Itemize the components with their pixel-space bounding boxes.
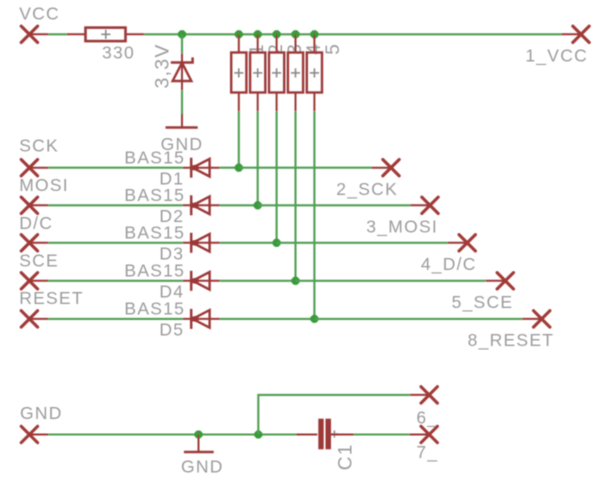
svg-text:BAS15: BAS15 [124, 223, 185, 243]
svg-text:BAS15: BAS15 [124, 147, 185, 167]
wire riser to net 6 [258, 395, 410, 435]
capacitor C1 origin cross [331, 430, 338, 437]
wire RESET to D5 [48, 318, 182, 320]
diode D1 lead line [183, 167, 220, 169]
node row5 junction [310, 315, 318, 323]
wire R1 to row 1 [238, 111, 240, 168]
node rail junction R4 [291, 30, 299, 38]
resistor R3 origin cross [272, 68, 281, 77]
pin connector X MOSI (left) [21, 197, 37, 213]
resistor R2 top pin [257, 34, 259, 52]
svg-text:3,3V: 3,3V [152, 43, 174, 88]
zener diode 3,3V triangle [173, 63, 192, 81]
wire R3 to row 3 [276, 111, 278, 243]
wire node to 2_SCK [239, 167, 372, 169]
wire D3 to node [220, 242, 277, 244]
pin connector X 3_MOSI (right) [422, 197, 438, 213]
resistor R4 origin cross [291, 68, 300, 77]
wire C1 to pin 7 [354, 433, 410, 435]
svg-text:3_MOSI: 3_MOSI [366, 217, 438, 238]
svg-text:GND: GND [181, 457, 224, 477]
wire node to 4_D/C [277, 242, 448, 244]
zener D6 pin line [181, 54, 183, 91]
svg-text:GND: GND [20, 403, 63, 423]
ground symbol (bottom) [184, 451, 214, 454]
node rail junction R1 [235, 30, 243, 38]
resistor R5 bottom pin [313, 93, 315, 112]
resistor R2 origin cross [253, 68, 262, 77]
diode D3 cathode bar [190, 233, 193, 253]
pin connector X GND (left) [21, 426, 37, 442]
pin connector X D/C (left) [21, 235, 37, 251]
diode D4 cathode bar [190, 271, 193, 291]
wire pin lead 1_VCC [562, 33, 582, 35]
resistor R5 origin cross [310, 68, 319, 77]
capacitor C1 lead left [296, 434, 317, 436]
svg-text:1_VCC: 1_VCC [525, 45, 588, 66]
resistor R4 body [288, 53, 303, 93]
diode D2 cathode bar [190, 195, 193, 215]
resistor R1 top pin [238, 34, 240, 52]
svg-text:4_D/C: 4_D/C [421, 254, 477, 275]
resistor R6 body (330) [86, 28, 126, 41]
pin connector X SCE (left) [21, 273, 37, 289]
node rail junction R5 [310, 30, 318, 38]
node row1 junction [235, 164, 243, 172]
wire D5 to node [220, 318, 315, 320]
svg-text:7_: 7_ [416, 442, 438, 463]
pin connector X 2_SCK (right) [383, 160, 399, 176]
resistor R3 bottom pin [276, 93, 278, 112]
node GND-symbol junction [194, 430, 202, 438]
wire GND row [48, 433, 296, 435]
svg-text:BAS15: BAS15 [124, 299, 185, 319]
wire pin lead 3_MOSI [411, 204, 431, 206]
node rail junction R3 [273, 30, 281, 38]
wire SCK to D1 [48, 167, 182, 169]
wire pin lead VCC [29, 33, 48, 35]
wire pin lead 4_D/C [448, 242, 468, 244]
wire pin lead 6 [410, 394, 429, 396]
wire pin lead SCE [29, 280, 48, 282]
svg-text:6_: 6_ [416, 407, 438, 428]
svg-text:8_RESET: 8_RESET [468, 330, 555, 351]
wire rail to zener [181, 34, 183, 53]
resistor R3 top pin [276, 34, 278, 52]
svg-text:C1: C1 [335, 443, 356, 470]
wire MOSI to D2 [48, 204, 182, 206]
svg-text:2_SCK: 2_SCK [336, 179, 398, 200]
diode D5 lead line [183, 318, 220, 320]
wire pin lead 2_SCK [372, 167, 392, 169]
resistor R5 body [307, 53, 322, 93]
node row2 junction [254, 201, 262, 209]
diode D3 triangle [192, 234, 210, 252]
resistor R4 bottom pin [295, 93, 297, 112]
wire D4 to node [220, 280, 296, 282]
svg-text:D/C: D/C [19, 213, 53, 233]
wire VCC to R6 [48, 33, 67, 35]
svg-text:SCK: SCK [19, 136, 59, 156]
node row4 junction [291, 277, 299, 285]
pin connector X SCK (left) [21, 160, 37, 176]
resistor R2 body [250, 53, 265, 93]
wire VCC rail [144, 33, 561, 35]
wire node to 8_RESET [314, 318, 522, 320]
svg-text:BAS15: BAS15 [124, 185, 185, 205]
resistor R2 bottom pin [257, 93, 259, 112]
pin connector X VCC (left) [21, 26, 37, 42]
wire D1 to node [220, 167, 239, 169]
wire D/C to D3 [48, 242, 182, 244]
diode D2 lead line [183, 204, 220, 206]
resistor R3 body [269, 53, 284, 93]
diode D4 lead line [183, 280, 220, 282]
pin connector X 8_RESET (right) [534, 311, 550, 327]
pin connector X 4_D/C (right) [459, 235, 475, 251]
capacitor C1 plates [318, 419, 331, 450]
pin connector X 5_SCE (right) [497, 273, 513, 289]
node row3 junction [273, 239, 281, 247]
resistor R1 body [231, 53, 246, 93]
wire pin lead SCK [29, 167, 48, 169]
wire zener to GND [181, 90, 183, 115]
svg-text:RESET: RESET [19, 288, 84, 308]
diode D5 cathode bar [190, 309, 193, 329]
wire pin lead RESET [29, 318, 48, 320]
wire pin lead MOSI [29, 204, 48, 206]
diode D1 triangle [192, 159, 210, 177]
pin connector X RESET (left) [21, 311, 37, 327]
resistor R5 top pin [313, 34, 315, 52]
wire pin lead 8_RESET [522, 318, 542, 320]
wire node to 3_MOSI [258, 204, 411, 206]
pin connector X 6 (right) [421, 387, 437, 403]
node riser junction [254, 430, 262, 438]
wire R4 to row 4 [294, 111, 296, 281]
capacitor C1 lead right [331, 434, 354, 436]
wire pin lead D/C [29, 242, 48, 244]
diode D1 cathode bar [190, 158, 193, 178]
resistor R1 origin cross [234, 68, 243, 77]
ground pin stub (bottom) [198, 435, 200, 452]
wire node to 5_SCE [296, 280, 486, 282]
wire R5 to row 5 [313, 111, 315, 319]
ground pin stub (zener) [181, 114, 183, 128]
wire pin lead 7 [410, 434, 430, 436]
resistor R6 lead right [126, 33, 145, 35]
diode D3 lead line [183, 242, 220, 244]
svg-text:5_SCE: 5_SCE [452, 292, 514, 313]
wire pin lead 5_SCE [486, 280, 506, 282]
node rail junction R2 [254, 30, 262, 38]
svg-text:VCC: VCC [19, 4, 60, 24]
resistor R4 top pin [295, 34, 297, 52]
diode D4 triangle [192, 272, 210, 290]
svg-text:MOSI: MOSI [19, 175, 69, 195]
diode D2 triangle [192, 197, 210, 215]
pin connector X 7 (right) [421, 426, 437, 442]
resistor R1 bottom pin [238, 93, 240, 112]
wire D2 to node [220, 204, 258, 206]
svg-text:5: 5 [323, 43, 344, 55]
ground symbol (zener) [166, 126, 198, 129]
wire R2 to row 2 [257, 111, 259, 205]
diode D5 triangle [192, 310, 210, 328]
svg-text:SCE: SCE [19, 250, 59, 270]
resistor R6 lead left [67, 33, 86, 35]
pin connector X 1_VCC (right) [573, 26, 589, 42]
svg-text:BAS15: BAS15 [124, 261, 185, 281]
zener diode 3,3V cathode bar [171, 57, 193, 62]
wire SCE to D4 [48, 280, 182, 282]
wire pin lead GND [29, 434, 48, 436]
svg-text:330: 330 [102, 43, 135, 63]
svg-text:D5: D5 [159, 320, 184, 340]
resistor R6 origin cross [101, 30, 110, 39]
node rail-zener junction [178, 30, 186, 38]
